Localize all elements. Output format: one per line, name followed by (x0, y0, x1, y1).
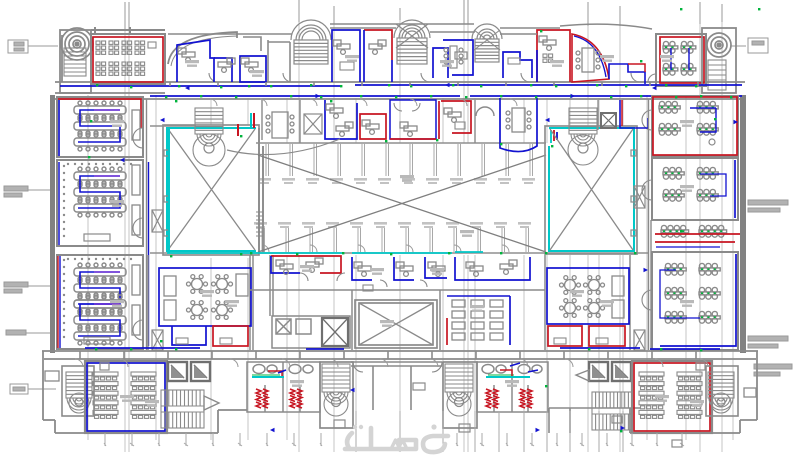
left room1 red outline (58, 99, 141, 128)
right hall X brace (550, 129, 633, 250)
right auditorium walls (632, 361, 712, 433)
left room2 desks (74, 167, 126, 217)
mid X column (304, 114, 322, 134)
room label smudges (110, 55, 704, 407)
mid band room3 (390, 100, 436, 139)
left wing shelves (132, 110, 140, 335)
left auditorium blue outline (87, 363, 165, 431)
right band3 desks (661, 225, 689, 237)
bottom-left stairwell (66, 372, 92, 410)
X column pairs (152, 186, 645, 350)
left wing door arcs (133, 128, 143, 340)
mid band wall (250, 289, 545, 291)
top-left classroom red outline (93, 37, 163, 82)
bottom-right stairwell (708, 372, 734, 410)
left elevators (168, 362, 210, 381)
top-right classroom (656, 34, 706, 86)
left break room (159, 268, 251, 326)
wc block left (247, 362, 320, 412)
left room3 dotted edge (63, 258, 132, 338)
left escalator arrow (204, 396, 219, 410)
courtyard stub columns (262, 143, 533, 252)
bottom blue accents (85, 348, 720, 349)
wing corridor walls (147, 99, 652, 350)
right hall colored dashes (551, 130, 557, 143)
left escalator (161, 390, 204, 428)
bottom stair core right (443, 362, 477, 428)
right wing outer wall (740, 95, 746, 353)
green dots (88, 8, 760, 432)
mid band blue room (325, 100, 357, 139)
corridor door swings (75, 99, 708, 367)
left hall edge ticks (164, 150, 169, 236)
left small room blue (172, 326, 206, 345)
top-left classroom walls (91, 27, 165, 84)
left hall gray frame (163, 125, 259, 255)
dome stair mid-left (195, 108, 223, 146)
wc right colored marks (486, 376, 530, 378)
top arch block (168, 32, 237, 64)
right room1 red outline (653, 97, 737, 155)
courtyard bottom wall (150, 252, 648, 254)
corridor upper blue line (60, 85, 742, 86)
left room2 dotted edge (63, 163, 132, 237)
bottom inner walls (351, 362, 640, 433)
left wing outer wall (50, 95, 55, 353)
corridor stubs (80, 82, 698, 359)
mid-right elevator (601, 113, 616, 128)
right wing door arcs (642, 110, 652, 310)
bottom small boxes (334, 416, 682, 447)
right break room (547, 268, 629, 324)
right room2 desks (663, 167, 684, 179)
left corridor blue line (148, 162, 150, 346)
right auditorium red outline (634, 363, 710, 431)
cyan red accents mid (169, 113, 251, 253)
top rooms 330-395 (332, 30, 392, 82)
left hall X brace (168, 129, 255, 250)
underlay grid axes (88, 8, 733, 452)
left room3 colored edge (57, 256, 59, 348)
dome stair mid-right (569, 108, 597, 146)
left wing room walls (57, 97, 143, 349)
top stair arch 1 (291, 20, 331, 64)
mid meeting room (262, 100, 300, 143)
conference room tables (452, 300, 503, 340)
bottom corridor walls (42, 351, 758, 433)
bottom grid ticks (104, 411, 684, 452)
right escalator (592, 392, 632, 430)
elevator core center (272, 316, 350, 348)
right room4 desks (665, 263, 686, 275)
center stair X room (355, 300, 437, 348)
top grid lines (125, 0, 722, 30)
wc left colored marks (252, 376, 284, 378)
right circular stair (707, 33, 731, 57)
mid-right red blue rooms (620, 100, 648, 128)
mid band partition walls (148, 255, 630, 350)
left auditorium walls (85, 361, 167, 433)
blue arrows (120, 83, 738, 432)
right dimension labels (730, 38, 792, 376)
mid band lobby walls (475, 100, 494, 143)
watermark khamsat (345, 428, 448, 452)
left dimension labels (4, 40, 58, 394)
right elevator pointer (576, 370, 589, 381)
right auditorium seats (639, 372, 702, 418)
bottom stair core left (320, 362, 353, 428)
bottom band left edge (43, 351, 757, 433)
courtyard giant X (258, 155, 546, 252)
wc right zigzags (486, 389, 491, 408)
top stair arch 3 (472, 24, 502, 62)
top curved room (572, 34, 609, 82)
top rooms 430-473 (433, 40, 473, 78)
courtyard top wall (150, 126, 546, 143)
courtyard bottom door arcs (262, 245, 509, 252)
right hall cyan outline (549, 128, 634, 251)
top band outer wall (168, 24, 560, 34)
mid band curved blue room (500, 98, 537, 152)
top rooms 500-570 (503, 30, 570, 82)
left circular stair (61, 28, 93, 60)
left room1 blue edge (58, 100, 60, 156)
mid band red room2 (441, 101, 471, 133)
top stepped rooms (609, 64, 645, 84)
left small room red (213, 326, 248, 346)
top rooms 175-268 (177, 40, 266, 82)
left room3 lower desks (74, 295, 126, 345)
wc left zigzags (256, 389, 261, 408)
corridor lower blue line (150, 95, 742, 97)
courtyard big arc (227, 139, 340, 155)
right small rooms red (548, 326, 582, 346)
top stair arch 2 (394, 20, 430, 64)
left room1 desks (74, 101, 126, 151)
left room3 desks (74, 263, 126, 313)
mid band red room (360, 114, 386, 139)
left hall cyan outline (167, 128, 256, 251)
right elevators (589, 362, 631, 381)
top band wall y82 doors (209, 73, 640, 82)
mid door arcs (300, 273, 427, 287)
mid offices row (271, 256, 530, 280)
right room1 desks (659, 101, 680, 113)
cyan bottom line (167, 252, 483, 253)
top-left corner walls (55, 30, 165, 93)
left hall inner wall (259, 128, 263, 252)
right hall edge ticks (631, 150, 636, 236)
left auditorium seats (93, 372, 156, 418)
right wing room walls (652, 96, 738, 350)
wc block right (477, 362, 548, 412)
top corridor walls (55, 82, 745, 99)
top-left classroom seats (96, 41, 106, 54)
right hall gray frame (545, 126, 637, 254)
